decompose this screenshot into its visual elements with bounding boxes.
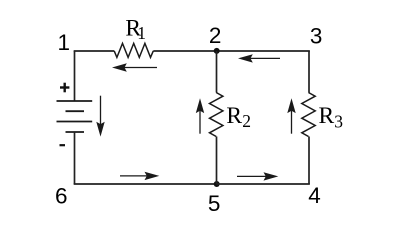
svg-text:3: 3 (334, 112, 343, 132)
battery (4 plates: long-short-long-short) (57, 101, 93, 132)
svg-text:5: 5 (208, 191, 221, 216)
node 5 junction dot (214, 181, 220, 187)
battery current arrow (pointing down) (96, 96, 104, 137)
current arrow bottom right (pointing right) (237, 172, 278, 180)
resistor R1 (114, 43, 153, 57)
svg-text:4: 4 (308, 183, 321, 208)
svg-text:1: 1 (137, 23, 146, 43)
svg-text:2: 2 (242, 111, 251, 131)
wire bottom segment node5 to node4 (217, 183, 310, 185)
current arrow left of R3 (pointing up) (287, 98, 295, 133)
wire left rail top (node1 down to battery) (74, 51, 76, 101)
current arrow between nodes 2 and 3 (pointing left) (238, 54, 280, 62)
wire middle rail bottom (R2 down to node5) (216, 137, 218, 185)
wire R1 to node 2 (153, 50, 216, 52)
wire bottom segment node6 to node5 (74, 183, 217, 185)
current arrow bottom left (pointing right) (120, 172, 159, 180)
current arrow under R1 (pointing left) (112, 63, 157, 71)
resistor R2 (210, 93, 223, 137)
battery plus label (60, 83, 69, 93)
wire node2 to node3 (top right segment) (217, 50, 310, 52)
wire right rail top (node3 down to R3) (308, 51, 310, 93)
wire left rail bottom (battery down to node6) (74, 132, 76, 184)
svg-text:2: 2 (209, 23, 222, 48)
resistor R3 (302, 93, 315, 137)
battery minus label (60, 144, 66, 146)
svg-text:1: 1 (58, 30, 71, 55)
node 2 junction dot (214, 48, 220, 54)
svg-text:3: 3 (310, 24, 323, 49)
wire right rail bottom (R3 down to node4) (308, 137, 310, 185)
svg-text:R: R (226, 103, 242, 129)
svg-text:R: R (319, 103, 335, 129)
svg-text:6: 6 (55, 184, 68, 209)
wire middle rail top (node2 down to R2) (216, 51, 218, 93)
current arrow left of R2 (pointing up) (196, 98, 204, 133)
wire node1 to R1 (top left segment) (74, 50, 115, 52)
